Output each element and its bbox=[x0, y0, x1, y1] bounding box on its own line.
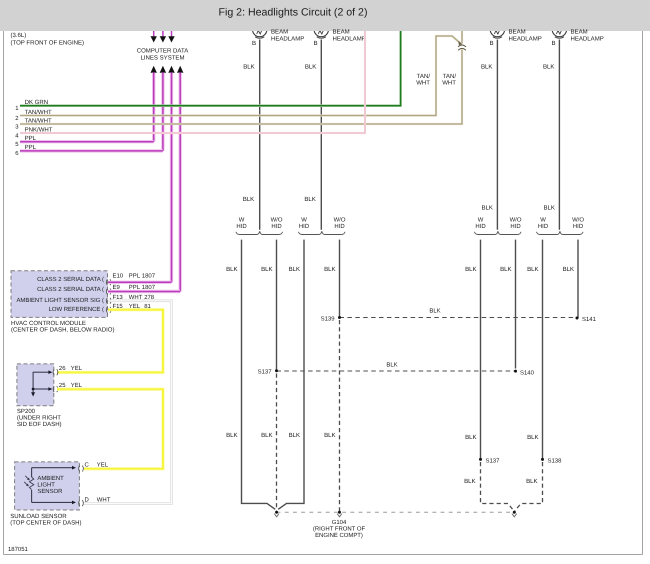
svg-text:BLK: BLK bbox=[563, 266, 574, 273]
ground node right bbox=[512, 511, 517, 517]
brace lamp1 bbox=[236, 231, 283, 234]
pin 26 bbox=[53, 365, 83, 375]
svg-text:BLK: BLK bbox=[526, 478, 537, 485]
wire PPL vertical v2 bbox=[161, 73, 164, 151]
svg-text:HID: HID bbox=[299, 223, 309, 230]
wire branch R1 dashed below S137 to ground bbox=[464, 462, 514, 511]
lamp bulb 2 bbox=[314, 22, 328, 38]
label beam headlamp 1 bbox=[252, 29, 304, 47]
wire PPL vertical v1 bbox=[152, 73, 155, 142]
svg-text:BEAM: BEAM bbox=[333, 29, 350, 36]
svg-text:W: W bbox=[239, 217, 245, 224]
wire lamp4 BLK vertical bbox=[543, 40, 559, 230]
svg-text:S140: S140 bbox=[520, 369, 535, 376]
svg-text:AMBIENT LIGHT SENSOR SIG (: AMBIENT LIGHT SENSOR SIG ( bbox=[16, 297, 104, 304]
label TAN/WHT col1 bbox=[416, 73, 430, 87]
svg-text:BLK: BLK bbox=[543, 205, 554, 212]
svg-text:PPL: PPL bbox=[25, 135, 37, 142]
wire branch L2 BLK solid to S137 bbox=[261, 240, 276, 371]
svg-text:CLASS 2 SERIAL DATA (: CLASS 2 SERIAL DATA ( bbox=[37, 276, 104, 283]
svg-text:B: B bbox=[252, 40, 256, 47]
svg-text:5: 5 bbox=[15, 141, 19, 148]
svg-text:6: 6 bbox=[15, 150, 19, 157]
svg-text:HEADLAMP: HEADLAMP bbox=[333, 35, 366, 42]
svg-text:SENSOR: SENSOR bbox=[37, 488, 63, 495]
svg-text:G104: G104 bbox=[332, 519, 347, 526]
svg-text:LINES SYSTEM: LINES SYSTEM bbox=[140, 54, 184, 61]
wire branch R4 BLK solid to S141 bbox=[563, 240, 578, 318]
svg-text:BLK: BLK bbox=[527, 434, 538, 441]
svg-text:W: W bbox=[301, 217, 307, 224]
svg-text:TAN/: TAN/ bbox=[443, 73, 457, 80]
ground node center bbox=[274, 511, 279, 517]
svg-text:TAN/WHT: TAN/WHT bbox=[25, 117, 52, 124]
lamp bulb 1 (beam headlamp left outboard) bbox=[253, 22, 267, 38]
header bar bbox=[0, 0, 650, 31]
svg-text:S138: S138 bbox=[548, 457, 563, 464]
svg-text:HID: HID bbox=[475, 223, 485, 230]
svg-text:HID: HID bbox=[510, 223, 520, 230]
wire 4 PNK/WHT bbox=[15, 31, 365, 139]
svg-text:PPL: PPL bbox=[25, 144, 37, 151]
svg-text:(TOP CENTER OF DASH): (TOP CENTER OF DASH) bbox=[10, 520, 81, 527]
wire 2 TAN/WHT bbox=[15, 36, 462, 122]
up arrow 4 bbox=[177, 66, 183, 73]
pin F13 bbox=[106, 294, 155, 304]
svg-text:BLK: BLK bbox=[289, 432, 300, 439]
wire 1 DK GRN bbox=[15, 31, 400, 112]
up arrow 2 bbox=[160, 66, 166, 73]
frame border left bbox=[3, 31, 5, 555]
svg-text:B: B bbox=[551, 40, 555, 47]
svg-text:DK GRN: DK GRN bbox=[25, 99, 49, 106]
wire 5 PPL bbox=[15, 135, 154, 148]
frame border right bbox=[642, 31, 644, 555]
svg-text:BLK: BLK bbox=[289, 266, 300, 273]
svg-text:TAN/: TAN/ bbox=[417, 73, 431, 80]
svg-text:W: W bbox=[540, 217, 546, 224]
svg-text:W/O: W/O bbox=[271, 217, 283, 224]
wire lamp1 BLK vertical bbox=[243, 40, 260, 230]
wire pin25 YEL to sunload pin C bbox=[57, 389, 163, 469]
svg-text:W/O: W/O bbox=[572, 217, 584, 224]
svg-text:WHT: WHT bbox=[416, 80, 430, 87]
label beam headlamp 3 bbox=[489, 29, 541, 47]
svg-text:TAN/WHT: TAN/WHT bbox=[25, 109, 52, 116]
svg-text:(UNDER RIGHT: (UNDER RIGHT bbox=[17, 414, 61, 421]
svg-text:AMBIENT: AMBIENT bbox=[37, 475, 64, 482]
svg-text:2: 2 bbox=[15, 115, 18, 122]
svg-text:HID: HID bbox=[271, 223, 281, 230]
svg-text:BLK: BLK bbox=[481, 205, 492, 212]
down arrow 1 bbox=[151, 31, 157, 43]
svg-text:PNK/WHT: PNK/WHT bbox=[25, 126, 53, 133]
wire E9 PPL bbox=[108, 290, 180, 293]
svg-text:BLK: BLK bbox=[543, 64, 554, 71]
wire E10 PPL bbox=[108, 281, 172, 284]
svg-text:YEL: YEL bbox=[71, 365, 83, 372]
computer data lines label bbox=[137, 48, 189, 62]
branch labels W HID / W/O HID right group bbox=[475, 217, 584, 230]
HVAC module caption bbox=[11, 320, 114, 334]
svg-text:S141: S141 bbox=[582, 316, 597, 323]
svg-text:BLK: BLK bbox=[500, 266, 511, 273]
pin C bbox=[79, 462, 109, 472]
svg-text:YEL: YEL bbox=[97, 462, 109, 469]
svg-text:Fig 2: Headlights Circuit (2 o: Fig 2: Headlights Circuit (2 of 2) bbox=[219, 7, 368, 19]
pin E10 bbox=[106, 273, 155, 286]
svg-text:SID EOF DASH): SID EOF DASH) bbox=[17, 421, 62, 428]
svg-text:BLK: BLK bbox=[261, 266, 272, 273]
wire PPL vertical v3 bbox=[170, 73, 173, 283]
brace lamp4 bbox=[537, 231, 584, 234]
svg-text:D: D bbox=[85, 497, 89, 504]
ground G104 bbox=[313, 511, 366, 539]
svg-text:BEAM: BEAM bbox=[571, 29, 588, 36]
svg-text:BEAM: BEAM bbox=[509, 29, 526, 36]
svg-text:BLK: BLK bbox=[305, 64, 316, 71]
svg-text:BLK: BLK bbox=[465, 434, 476, 441]
svg-text:W: W bbox=[478, 217, 484, 224]
svg-text:HEADLAMP: HEADLAMP bbox=[509, 35, 542, 42]
wire PPL vertical v4 bbox=[178, 73, 181, 292]
svg-text:B: B bbox=[489, 40, 493, 47]
wire branch R1 BLK solid to S137 bbox=[465, 240, 480, 460]
label beam headlamp 2 bbox=[313, 29, 365, 47]
svg-text:BLK: BLK bbox=[324, 432, 335, 439]
up arrow 3 bbox=[168, 66, 174, 73]
svg-text:BLK: BLK bbox=[324, 266, 335, 273]
wire branch R3 BLK solid to S138 bbox=[527, 240, 542, 460]
svg-text:HEADLAMP: HEADLAMP bbox=[571, 35, 604, 42]
ground dashed rail bbox=[277, 511, 515, 513]
branch labels W HID / W/O HID left group bbox=[236, 217, 345, 230]
svg-text:(TOP FRONT OF ENGINE): (TOP FRONT OF ENGINE) bbox=[11, 40, 85, 47]
sunload sensor box with ambient light sensor bbox=[15, 462, 80, 510]
wire F13 WHT bbox=[84, 301, 172, 504]
svg-text:BLK: BLK bbox=[465, 266, 476, 273]
svg-text:S137: S137 bbox=[258, 369, 272, 376]
svg-text:B: B bbox=[313, 40, 317, 47]
wire branch R3 dashed below S138 to ground bbox=[515, 462, 543, 511]
svg-text:S137: S137 bbox=[486, 457, 500, 464]
wire branch L1 BLK solid to ground bbox=[226, 240, 275, 510]
pin 25 bbox=[53, 382, 83, 392]
svg-text:BLK: BLK bbox=[464, 478, 475, 485]
svg-text:1807: 1807 bbox=[142, 273, 155, 280]
pin E9 bbox=[106, 284, 155, 295]
svg-text:PPL: PPL bbox=[129, 273, 141, 280]
svg-text:ENGINE COMPT): ENGINE COMPT) bbox=[315, 532, 363, 539]
wire lamp3 BLK vertical bbox=[481, 40, 497, 230]
splice S137 to S140 dashed BLK bbox=[258, 362, 535, 377]
wire branch L3 BLK solid to ground bbox=[278, 240, 304, 510]
svg-text:W/O: W/O bbox=[510, 217, 522, 224]
frame border bottom bbox=[4, 554, 643, 556]
svg-text:3: 3 bbox=[15, 123, 19, 130]
lamp bulb 3 bbox=[490, 22, 504, 38]
wire lamp2 BLK vertical bbox=[304, 40, 321, 230]
svg-text:BLK: BLK bbox=[527, 266, 538, 273]
HVAC control module box bbox=[11, 271, 108, 318]
svg-text:BLK: BLK bbox=[226, 432, 237, 439]
svg-text:BLK: BLK bbox=[243, 196, 254, 203]
svg-text:BLK: BLK bbox=[304, 196, 315, 203]
svg-text:1: 1 bbox=[15, 105, 19, 112]
down arrow 2 bbox=[160, 31, 166, 43]
svg-text:WHT: WHT bbox=[442, 80, 456, 87]
svg-text:S139: S139 bbox=[321, 315, 336, 322]
svg-text:COMPUTER DATA: COMPUTER DATA bbox=[137, 48, 189, 55]
label beam headlamp 4 bbox=[551, 29, 603, 47]
svg-text:BLK: BLK bbox=[386, 362, 397, 369]
svg-text:BLK: BLK bbox=[481, 64, 492, 71]
svg-text:SUNLOAD SENSOR: SUNLOAD SENSOR bbox=[10, 513, 67, 520]
svg-text:HID: HID bbox=[573, 223, 583, 230]
wire 6 PPL bbox=[15, 144, 163, 157]
wire branch L2 dashed below S137 bbox=[261, 374, 276, 511]
svg-text:(CENTER OF DASH, BELOW RADIO): (CENTER OF DASH, BELOW RADIO) bbox=[11, 327, 114, 334]
svg-text:BEAM: BEAM bbox=[271, 29, 288, 36]
svg-text:187051: 187051 bbox=[8, 546, 29, 553]
svg-text:BLK: BLK bbox=[243, 64, 254, 71]
up arrow 1 bbox=[151, 66, 157, 73]
wire branch L4 dashed below S139 to G104 bbox=[324, 320, 339, 512]
SP200 box bbox=[17, 364, 54, 406]
wire 3 TAN/WHT with inline break bbox=[15, 31, 466, 130]
splice node S137 right bbox=[479, 457, 499, 464]
svg-text:4: 4 bbox=[15, 132, 19, 139]
pin F15 bbox=[106, 303, 151, 313]
svg-text:HID: HID bbox=[538, 223, 548, 230]
sunload caption bbox=[10, 513, 81, 527]
svg-text:CLASS 2 SERIAL DATA (: CLASS 2 SERIAL DATA ( bbox=[37, 286, 104, 293]
svg-text:(RIGHT FRONT OF: (RIGHT FRONT OF bbox=[313, 525, 366, 532]
wire branch L4 BLK solid to S139 bbox=[324, 240, 339, 318]
svg-text:HEADLAMP: HEADLAMP bbox=[271, 35, 304, 42]
svg-text:LIGHT: LIGHT bbox=[37, 482, 55, 489]
svg-text:HID: HID bbox=[236, 223, 246, 230]
wire branch R2 BLK solid to S140 bbox=[500, 240, 515, 369]
splice S139 to S141 dashed BLK bbox=[321, 307, 597, 323]
svg-text:W/O: W/O bbox=[334, 217, 346, 224]
down arrow 3 bbox=[168, 31, 174, 43]
svg-text:BLK: BLK bbox=[261, 432, 272, 439]
svg-text:LOW REFERENCE (: LOW REFERENCE ( bbox=[49, 306, 104, 313]
lamp bulb 4 bbox=[552, 22, 566, 38]
pin D bbox=[79, 497, 111, 507]
splice node S138 bbox=[541, 457, 562, 464]
svg-text:26: 26 bbox=[59, 365, 66, 372]
svg-text:(3.6L): (3.6L) bbox=[11, 32, 27, 39]
svg-text:HID: HID bbox=[334, 223, 344, 230]
wire F15 YEL to SP200 pin 26 bbox=[57, 310, 163, 373]
brace lamp3 bbox=[475, 231, 522, 234]
label TAN/WHT col2 bbox=[442, 73, 456, 87]
svg-text:HVAC CONTROL MODULE: HVAC CONTROL MODULE bbox=[11, 320, 86, 327]
svg-text:BLK: BLK bbox=[226, 266, 237, 273]
SP200 caption bbox=[17, 408, 62, 428]
svg-text:C: C bbox=[85, 462, 90, 469]
svg-text:SP200: SP200 bbox=[17, 408, 36, 415]
svg-text:WHT: WHT bbox=[97, 497, 111, 504]
svg-text:BLK: BLK bbox=[429, 307, 440, 314]
svg-text:E10: E10 bbox=[113, 273, 124, 280]
brace lamp2 bbox=[299, 231, 346, 234]
